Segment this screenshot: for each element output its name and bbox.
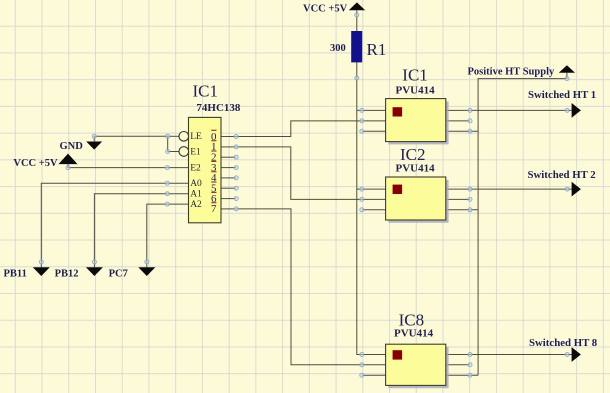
- svg-text:IC1: IC1: [402, 65, 428, 84]
- svg-text:E1: E1: [190, 147, 201, 157]
- svg-text:PVU414: PVU414: [396, 163, 436, 175]
- svg-text:Switched HT 8: Switched HT 8: [529, 337, 598, 349]
- svg-text:VCC +5V: VCC +5V: [303, 4, 348, 15]
- svg-text:A2: A2: [190, 200, 202, 210]
- svg-text:E2: E2: [190, 163, 201, 173]
- svg-text:PC7: PC7: [109, 269, 128, 280]
- svg-text:Switched HT 1: Switched HT 1: [528, 89, 596, 101]
- svg-text:Positive HT Supply: Positive HT Supply: [468, 66, 555, 77]
- svg-text:A1: A1: [190, 189, 202, 199]
- svg-text:R1: R1: [367, 40, 387, 59]
- svg-text:300: 300: [330, 43, 346, 54]
- svg-text:PVU414: PVU414: [396, 84, 436, 96]
- svg-text:VCC +5V: VCC +5V: [13, 158, 58, 169]
- svg-text:7: 7: [211, 203, 217, 215]
- svg-text:LE: LE: [190, 132, 202, 142]
- svg-text:IC2: IC2: [400, 145, 426, 164]
- svg-text:IC1: IC1: [193, 82, 219, 101]
- svg-text:PVU414: PVU414: [394, 327, 434, 339]
- svg-text:A0: A0: [190, 179, 202, 189]
- svg-text:GND: GND: [60, 141, 84, 152]
- svg-text:74HC138: 74HC138: [196, 102, 241, 114]
- svg-text:PB12: PB12: [55, 269, 79, 280]
- svg-text:PB11: PB11: [4, 269, 27, 280]
- svg-text:Switched HT 2: Switched HT 2: [528, 169, 596, 181]
